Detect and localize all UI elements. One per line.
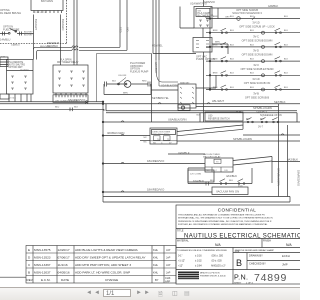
- svg-text:12/20/17: 12/20/17: [58, 248, 70, 252]
- svg-text:4A8/BLK: 4A8/BLK: [268, 4, 279, 8]
- svg-text:REMOVE BURRS AND BREAK SHARP: REMOVE BURRS AND BREAK SHARP: [235, 249, 275, 252]
- svg-text:OPT SIDE SCRUB UP - LOCK: OPT SIDE SCRUB UP - LOCK: [239, 24, 275, 28]
- svg-text:BLK: BLK: [284, 44, 289, 46]
- svg-text:SPS/BLU/GRN: SPS/BLU/GRN: [233, 137, 252, 141]
- svg-text:BLK: BLK: [250, 30, 255, 32]
- svg-text:GRN/VIO: GRN/VIO: [204, 0, 215, 4]
- svg-text:KHL: KHL: [153, 263, 159, 267]
- svg-text:GRY/BLK: GRY/BLK: [154, 62, 158, 73]
- svg-text:LRN/BLK: LRN/BLK: [178, 151, 190, 155]
- svg-text:SET/BLK: SET/BLK: [274, 100, 286, 104]
- svg-text:FINISH: FINISH: [263, 240, 271, 243]
- svg-text:SET/BRN/YEL: SET/BRN/YEL: [152, 96, 169, 100]
- svg-text:N/A: N/A: [215, 243, 221, 247]
- svg-text:3V-7: 3V-7: [258, 126, 264, 129]
- svg-text:PERMISSION OF MINUTEMAN INTERN: PERMISSION OF MINUTEMAN INTERNATIONAL, I…: [178, 220, 272, 223]
- svg-text:BLK: BLK: [112, 80, 117, 82]
- svg-text:14A/BLU: 14A/BLU: [11, 44, 20, 47]
- svg-text:ADD PARK LT, HD WIRE COLOR, SW: ADD PARK LT, HD WIRE COLOR, SWP: [75, 271, 130, 275]
- svg-text:SMB SET: SMB SET: [180, 83, 190, 85]
- svg-text:BLK/GRY: BLK/GRY: [34, 19, 38, 30]
- svg-text:14A/BLU: 14A/BLU: [0, 38, 11, 42]
- svg-text:U8A/BLK/GRN: U8A/BLK/GRN: [168, 118, 187, 122]
- svg-text:BLK: BLK: [230, 73, 235, 75]
- svg-text:E.C.M.: E.C.M.: [41, 278, 51, 282]
- svg-text:VACUUM TIMER: VACUUM TIMER: [203, 153, 220, 156]
- svg-text:INTERNATIONAL, INC. THE DRAWIN: INTERNATIONAL, INC. THE DRAWING IS NOT T…: [178, 217, 273, 220]
- svg-text:ADD DRY SWEEP OPT & UPDATE LAT: ADD DRY SWEEP OPT & UPDATE LATCH RELAY: [75, 256, 146, 260]
- svg-text:BLK: BLK: [284, 87, 289, 89]
- svg-text:BLK: BLK: [229, 180, 234, 182]
- svg-text:NO: NO: [207, 170, 210, 172]
- svg-text:NO: NO: [153, 142, 156, 144]
- svg-text:14A: 14A: [1, 56, 5, 59]
- svg-text:U2A BLK/GRN: U2A BLK/GRN: [161, 84, 178, 88]
- svg-text:CONFIDENTIAL: CONFIDENTIAL: [218, 208, 257, 213]
- svg-text:BLK: BLK: [284, 73, 289, 75]
- svg-text:BLK: BLK: [284, 16, 289, 18]
- svg-text:N/A: N/A: [286, 243, 292, 247]
- svg-text:ADD MTR PMP OPTION, ADD SHEET: ADD MTR PMP OPTION, ADD SHEET 3: [75, 263, 131, 267]
- svg-text:MSN-13523: MSN-13523: [34, 256, 51, 260]
- svg-text:RED: RED: [118, 27, 122, 33]
- svg-text:1 2 3 4 5 6 7 8: 1 2 3 4 5 6 7 8: [33, 12, 47, 14]
- svg-text:2 OF 3: 2 OF 3: [246, 282, 253, 284]
- svg-text:BLK: BLK: [230, 59, 235, 61]
- svg-text:3V-B: 3V-B: [253, 91, 259, 95]
- svg-text:3V-1D: 3V-1D: [252, 20, 259, 24]
- svg-text:DRT SWEEP RELAY: DRT SWEEP RELAY: [57, 61, 79, 64]
- svg-text:PLA REMOTE: PLA REMOTE: [9, 61, 24, 64]
- svg-text:74899: 74899: [254, 272, 287, 284]
- svg-text:1 2 3 4 5: 1 2 3 4 5: [8, 98, 17, 100]
- svg-text:OPT SIDE SCRUB EXTEND: OPT SIDE SCRUB EXTEND: [240, 67, 273, 71]
- svg-text:BLK/GRN: BLK/GRN: [61, 19, 65, 31]
- svg-text:SIZE: SIZE: [235, 251, 240, 253]
- svg-text:04/05/16: 04/05/16: [58, 271, 70, 275]
- svg-text:SPS/BLU/GRN: SPS/BLU/GRN: [253, 106, 272, 110]
- svg-text:RL REAR BRUSH: RL REAR BRUSH: [0, 11, 21, 15]
- svg-text:BLK/GRY: BLK/GRY: [24, 34, 33, 36]
- svg-text:TITLE: TITLE: [177, 230, 184, 233]
- svg-text:.000 ± .020: .000 ± .020: [211, 255, 224, 258]
- svg-text:OPT SIDE SCRUB ON: OPT SIDE SCRUB ON: [244, 81, 271, 85]
- svg-text:D: D: [28, 256, 31, 260]
- svg-text:BLK: BLK: [284, 59, 289, 61]
- svg-text:± 1/16: ± 1/16: [195, 255, 202, 258]
- svg-text:BRN: BRN: [213, 87, 218, 89]
- svg-text:NAUTILUS ELECTRICAL SCHEMATIC: NAUTILUS ELECTRICAL SCHEMATIC: [184, 233, 300, 239]
- svg-text:P.N.: P.N.: [234, 273, 248, 282]
- svg-text:OPT SIDE SCRUB B: OPT SIDE SCRUB B: [245, 95, 270, 99]
- svg-text:MSN-13575: MSN-13575: [34, 248, 51, 252]
- svg-text:JvP: JvP: [166, 256, 171, 260]
- svg-text:B: B: [236, 258, 242, 268]
- svg-text:OPT SIDE SCRUB DOWN: OPT SIDE SCRUB DOWN: [242, 53, 273, 57]
- svg-text:VIO: VIO: [125, 27, 129, 31]
- svg-text:3V-6: 3V-6: [238, 185, 243, 187]
- svg-text:B: B: [28, 271, 30, 275]
- svg-text:BLK: BLK: [230, 87, 235, 89]
- svg-text:BRN: BRN: [215, 42, 220, 44]
- svg-text:BLK: BLK: [250, 16, 255, 18]
- svg-text:4A3/BLK: 4A3/BLK: [287, 158, 298, 162]
- svg-text:BRN: BRN: [213, 16, 218, 18]
- svg-text:BRN: BRN: [213, 59, 218, 61]
- svg-text:M1: M1: [144, 142, 148, 144]
- svg-text:BLK: BLK: [197, 114, 202, 116]
- svg-text:BLK/GRY: BLK/GRY: [24, 31, 33, 33]
- svg-text:SHEET: SHEET: [234, 282, 242, 284]
- svg-text:ECKH: ECKH: [282, 254, 290, 258]
- svg-text:12V CONN: 12V CONN: [190, 174, 201, 176]
- svg-text:FURTHER, ALL INFORMATION CONTA: FURTHER, ALL INFORMATION CONTAINED HEREI…: [178, 223, 268, 226]
- svg-text:OPT SIDE SCRUB DOWN: OPT SIDE SCRUB DOWN: [242, 39, 273, 43]
- svg-text:JvP: JvP: [166, 263, 171, 267]
- svg-text:BLK: BLK: [230, 30, 235, 32]
- svg-text:M2: M2: [144, 137, 148, 139]
- svg-text:REVERSE SWITCH: REVERSE SWITCH: [208, 118, 230, 121]
- svg-text:BLK: BLK: [250, 87, 255, 89]
- svg-text:18A/RED/VIO: 18A/RED/VIO: [68, 98, 86, 102]
- svg-text:BLK: BLK: [250, 59, 255, 61]
- svg-text:MSN-13367: MSN-13367: [34, 263, 51, 267]
- svg-text:BLK: BLK: [246, 119, 251, 121]
- svg-text:PLA OPRN: PLA OPRN: [60, 58, 72, 61]
- svg-text:CHK: CHK: [165, 276, 171, 280]
- svg-text:KHL: KHL: [153, 256, 159, 260]
- svg-text:TOLERANCES UNLESS OTHERWISE S: TOLERANCES UNLESS OTHERWISE SPECIFIED: [177, 249, 228, 252]
- svg-text:07/06/17: 07/06/17: [58, 256, 70, 260]
- svg-text:± 1/64: ± 1/64: [195, 265, 202, 268]
- svg-text:BAT MAIN: BAT MAIN: [41, 0, 53, 3]
- svg-text:BRN: BRN: [123, 93, 128, 95]
- svg-text:.00 ± .030: .00 ± .030: [211, 260, 222, 263]
- svg-text:BLU: BLU: [55, 107, 60, 109]
- svg-text:MSN-13037: MSN-13037: [34, 271, 51, 275]
- svg-text:MINUTE LIL PILTS IN: MINUTE LIL PILTS IN: [200, 273, 220, 275]
- svg-text:JMP: JMP: [282, 263, 288, 267]
- svg-text:E: E: [28, 248, 30, 252]
- svg-text:ON-OFF: ON-OFF: [118, 75, 127, 77]
- svg-text:AUTO SHUTRS: AUTO SHUTRS: [9, 63, 26, 66]
- svg-text:JvP: JvP: [166, 248, 171, 252]
- svg-text:SQUEEGEE UP-DN: SQUEEGEE UP-DN: [260, 114, 282, 117]
- svg-text:SOLUTION SOLENOID 3: SOLUTION SOLENOID 3: [232, 11, 262, 15]
- svg-text:MATERIAL: MATERIAL: [177, 240, 189, 243]
- svg-text:FWD-REV LATCH: FWD-REV LATCH: [153, 133, 170, 136]
- svg-text:BLK: BLK: [250, 73, 255, 75]
- svg-text:KHL: KHL: [153, 271, 159, 275]
- svg-text:BY: BY: [155, 278, 159, 282]
- svg-text:DATE: DATE: [61, 278, 69, 282]
- svg-text:3V-C: 3V-C: [253, 35, 259, 39]
- svg-text:BLK: BLK: [210, 180, 215, 182]
- svg-text:3V-1D: 3V-1D: [252, 77, 259, 81]
- svg-text:MAX DRY DELAY: MAX DRY DELAY: [203, 156, 221, 159]
- svg-text:APP: APP: [165, 280, 170, 284]
- svg-text:4A3/BLK: 4A3/BLK: [226, 174, 237, 178]
- svg-text:± 1/32: ± 1/32: [195, 260, 202, 263]
- svg-text:BRN: BRN: [213, 44, 218, 46]
- svg-text:BRN: BRN: [213, 73, 218, 75]
- svg-text:BLK: BLK: [230, 16, 235, 18]
- svg-text:10A/BLK: 10A/BLK: [193, 179, 204, 183]
- svg-text:18A/RED/VIO: 18A/RED/VIO: [147, 187, 165, 191]
- svg-text:0-1″: 0-1″: [178, 255, 182, 258]
- svg-text:GRN/BLK/GRN: GRN/BLK/GRN: [277, 168, 281, 186]
- svg-text:THIS DRAWING AND ALL INFORMATI: THIS DRAWING AND ALL INFORMATION CONTAIN…: [178, 214, 265, 217]
- svg-text:>1-12″: >1-12″: [178, 260, 185, 263]
- svg-text:11/1/16: 11/1/16: [58, 263, 68, 267]
- svg-text:CLOSTO: CLOSTO: [20, 69, 29, 71]
- svg-text:PUMP: PUMP: [196, 57, 204, 61]
- svg-text:DRAWN BY: DRAWN BY: [249, 254, 263, 258]
- svg-text:U3A/YEL: U3A/YEL: [152, 44, 163, 48]
- svg-text:>12″: >12″: [178, 265, 183, 268]
- svg-text:BLK: BLK: [74, 107, 79, 109]
- svg-text:18A/RED/VIO: 18A/RED/VIO: [297, 170, 301, 186]
- svg-text:C: C: [28, 263, 31, 267]
- svg-text:REV: REV: [27, 278, 34, 282]
- svg-text:BLK: BLK: [260, 119, 265, 121]
- svg-text:FLEXUS PUMP: FLEXUS PUMP: [130, 69, 149, 73]
- svg-text:RED/SOL: RED/SOL: [40, 46, 50, 48]
- svg-text:18A/RED/VIO: 18A/RED/VIO: [147, 159, 165, 163]
- svg-text:PINGREE GROVE, IL 60140: PINGREE GROVE, IL 60140: [200, 276, 226, 278]
- svg-text:BRN: BRN: [213, 30, 218, 32]
- svg-text:CHANGE: CHANGE: [105, 278, 118, 282]
- svg-text:3V-D: 3V-D: [253, 49, 259, 53]
- svg-text:KHL: KHL: [153, 248, 159, 252]
- svg-text:ANGLES ± 2°: ANGLES ± 2°: [211, 265, 226, 268]
- svg-text:3V-0: 3V-0: [253, 63, 259, 67]
- svg-text:BLK: BLK: [230, 44, 235, 46]
- svg-text:BRN: BRN: [205, 17, 210, 19]
- svg-text:VACUUM FAN ON: VACUUM FAN ON: [216, 189, 239, 193]
- svg-text:BLK: BLK: [250, 44, 255, 46]
- svg-text:RED: RED: [142, 80, 147, 82]
- svg-text:ADD BLUE LIGHTS & REAR VIEW CA: ADD BLUE LIGHTS & REAR VIEW CAMERA: [75, 248, 139, 252]
- svg-text:FUEL PROBE: FUEL PROBE: [3, 27, 20, 31]
- svg-text:CHECKED BY: CHECKED BY: [249, 262, 266, 266]
- svg-text:I2D/BLK/GRN: I2D/BLK/GRN: [107, 131, 124, 135]
- svg-text:JvP: JvP: [166, 271, 171, 275]
- svg-text:LBL/WHT: LBL/WHT: [212, 99, 224, 103]
- svg-text:BLK: BLK: [284, 30, 289, 32]
